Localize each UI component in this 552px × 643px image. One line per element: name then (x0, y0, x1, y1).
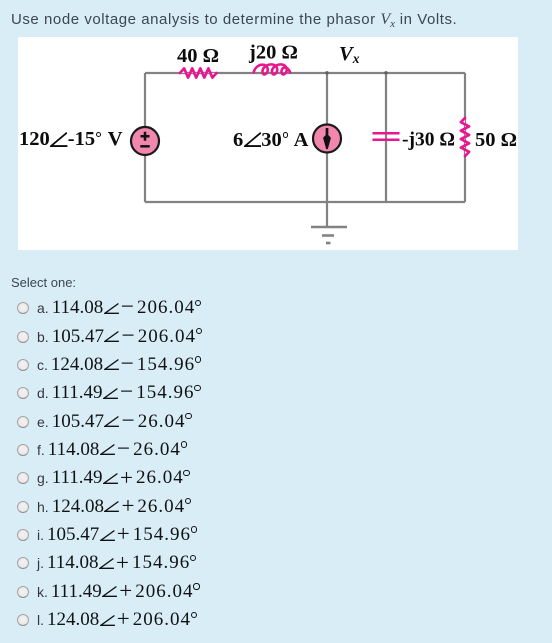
svg-text:40 Ω: 40 Ω (177, 45, 219, 67)
svg-text:-j30 Ω: -j30 Ω (402, 130, 455, 151)
svg-text:50 Ω: 50 Ω (475, 129, 517, 151)
svg-text:j20 Ω: j20 Ω (248, 42, 298, 64)
